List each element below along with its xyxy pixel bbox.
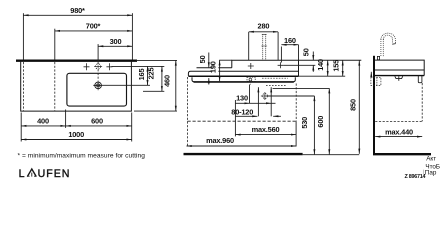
svg-text:80-120: 80-120 (231, 107, 253, 116)
svg-text:L: L (19, 168, 26, 180)
svg-text:1000: 1000 (68, 130, 84, 139)
svg-text:600: 600 (316, 116, 325, 128)
svg-text:* = minimum/maximum measure fo: * = minimum/maximum measure for cutting (18, 153, 146, 160)
svg-text:140: 140 (316, 59, 325, 71)
svg-text:400: 400 (37, 116, 49, 125)
svg-text:460: 460 (163, 75, 172, 87)
svg-text:980*: 980* (70, 6, 85, 15)
svg-text:850: 850 (348, 99, 357, 111)
svg-text:UFEN: UFEN (38, 168, 71, 180)
svg-text:225: 225 (147, 68, 156, 80)
svg-text:160: 160 (284, 36, 296, 45)
svg-text:max.960: max.960 (206, 136, 234, 145)
svg-text:280: 280 (258, 22, 270, 31)
svg-text:155: 155 (331, 60, 340, 72)
svg-text:max.440: max.440 (385, 127, 413, 136)
svg-text:max.560: max.560 (252, 125, 280, 134)
svg-text:300: 300 (110, 37, 122, 46)
svg-text:600: 600 (91, 116, 103, 125)
svg-text:190: 190 (208, 61, 217, 73)
svg-text:530: 530 (300, 117, 309, 129)
svg-text:700*: 700* (86, 21, 101, 30)
svg-text:Z 896714: Z 896714 (405, 174, 426, 180)
svg-text:165: 165 (137, 69, 146, 81)
svg-text:Пар: Пар (425, 170, 437, 177)
svg-text:50: 50 (198, 55, 207, 63)
svg-text:130: 130 (236, 94, 248, 103)
svg-text:50: 50 (302, 48, 311, 56)
svg-text:Акт: Акт (426, 156, 436, 163)
